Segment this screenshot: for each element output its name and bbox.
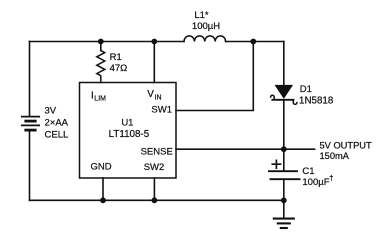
pin label SW1: [151, 105, 172, 116]
wire top rail right segment (inductor to diode corner): [226, 41, 284, 43]
wire diode cathode to output node: [283, 100, 285, 149]
svg-text:LIM: LIM: [94, 96, 106, 103]
svg-text:R1: R1: [110, 52, 122, 63]
wire left vertical (top rail to battery +): [29, 42, 31, 116]
output label 5V OUTPUT 150mA: [320, 141, 372, 161]
battery label 3V 2xAA CELL: [45, 105, 69, 140]
svg-text:3V: 3V: [45, 105, 57, 116]
node R1/top rail: [98, 39, 104, 45]
pin label VIN: [147, 89, 161, 101]
svg-text:C1: C1: [302, 166, 314, 177]
wire output node to C1: [283, 149, 285, 171]
svg-text:L1*: L1*: [194, 10, 209, 21]
svg-text:†: †: [329, 173, 333, 182]
battery B1 3V 2xAA: [22, 117, 39, 131]
svg-text:5V OUTPUT: 5V OUTPUT: [320, 141, 372, 151]
D1 label: [299, 84, 334, 106]
wire R1 top lead from rail: [100, 42, 102, 51]
pin label SW2: [144, 162, 165, 173]
wire diode branch vertical from top rail: [283, 42, 285, 87]
svg-text:D1: D1: [300, 84, 312, 95]
wire VIN drop from rail to IC: [153, 42, 155, 83]
wire SW2 pin to bottom rail: [153, 178, 155, 200]
node SW1/top rail: [250, 39, 256, 45]
U1 designator: [109, 118, 150, 140]
wire SENSE to output node: [176, 148, 284, 150]
svg-text:CELL: CELL: [45, 129, 69, 140]
node ground/bottom rail: [281, 197, 287, 203]
diode D1 1N5818 (schottky): [276, 86, 292, 98]
ground: [283, 200, 285, 218]
op-amp U1 LT1108-5 IC box: [80, 83, 177, 179]
svg-text:V: V: [147, 89, 154, 100]
wire bottom rail: [30, 199, 284, 201]
pin label SENSE: [141, 147, 173, 158]
pin label GND: [90, 162, 111, 173]
node SW2/bottom rail: [152, 197, 158, 203]
svg-text:2×AA: 2×AA: [45, 117, 69, 128]
node junction dots: [98, 39, 287, 204]
node GND/bottom rail: [100, 197, 106, 203]
svg-text:100µH: 100µH: [192, 21, 220, 32]
svg-text:100µF: 100µF: [302, 177, 329, 188]
wire GND pin to bottom rail: [102, 178, 104, 200]
inductor L1: [184, 36, 226, 42]
svg-text:SW2: SW2: [144, 162, 165, 173]
capacitor C1 plus sign: [272, 160, 280, 168]
svg-text:LT1108-5: LT1108-5: [109, 129, 150, 140]
wire C1 to bottom rail: [283, 179, 285, 200]
node VIN/top rail: [151, 39, 157, 45]
svg-text:GND: GND: [90, 162, 111, 173]
svg-text:IN: IN: [155, 95, 162, 102]
node output: [281, 146, 287, 152]
svg-text:SENSE: SENSE: [141, 147, 173, 158]
svg-text:SW1: SW1: [151, 105, 172, 116]
wire output stub: [284, 148, 315, 150]
wire SW1 to top rail: [176, 42, 253, 111]
L1 value label: [192, 10, 220, 32]
pin label ILIM: [91, 90, 106, 102]
C1 value label: [302, 166, 333, 188]
capacitor C1: [269, 170, 297, 172]
svg-text:150mA: 150mA: [320, 151, 350, 161]
svg-text:1N5818: 1N5818: [299, 95, 334, 106]
svg-text:U1: U1: [121, 118, 133, 129]
wire top rail left segment (top-left corner to inductor): [30, 41, 185, 43]
wire left vertical (battery - to bottom rail): [29, 131, 31, 200]
resistor R1: [97, 51, 105, 83]
R1 value label: [110, 52, 128, 74]
svg-text:47Ω: 47Ω: [110, 63, 128, 74]
